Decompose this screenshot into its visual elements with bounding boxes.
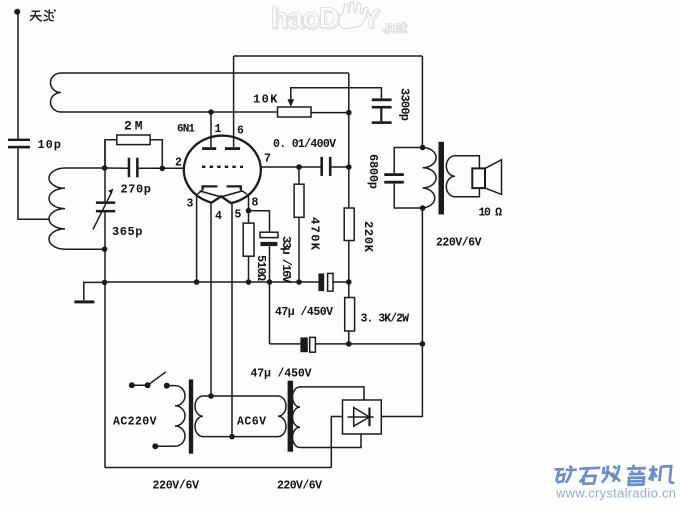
svg-text:3. 3K/2W: 3. 3K/2W [361, 313, 410, 326]
transformer T1 primary terminal bottom [152, 443, 175, 449]
wire 33u branch down [269, 282, 271, 344]
svg-text:AC6V: AC6V [237, 416, 266, 429]
wire L1 top line [61, 72, 349, 74]
wire pin4 down [210, 202, 212, 396]
svg-text:365p: 365p [112, 225, 143, 239]
wire speaker top [455, 156, 479, 169]
switch contacts [129, 372, 166, 389]
svg-text:220V/6V: 220V/6V [436, 237, 482, 250]
ground wire [84, 282, 105, 300]
potentiometer 10K body [278, 107, 312, 117]
transformer T1 primary winding [175, 386, 185, 447]
resistor 2M [117, 135, 150, 145]
wire rail348 mid [348, 241, 350, 298]
svg-text:10K: 10K [253, 93, 278, 107]
ground symbol [74, 300, 94, 303]
resistor 3.3K/2W [345, 298, 355, 332]
wire rail348 low [348, 331, 350, 344]
svg-text:haoD: haoD [271, 3, 339, 35]
resistor 510 ohm [243, 223, 254, 282]
junction dot pin2 [160, 166, 166, 172]
wire B+ rail top [421, 56, 423, 148]
bridge diode [348, 408, 374, 427]
junction dot 3.3K bottom [346, 341, 352, 347]
label antenna tianxian [30, 9, 56, 21]
svg-text:3: 3 [187, 198, 194, 211]
inductor L2 antenna coil [49, 168, 65, 249]
svg-text:10p: 10p [38, 138, 62, 152]
wire rail348 upper [348, 73, 350, 208]
svg-text:2M: 2M [124, 119, 143, 134]
watermark haoDIY.net logo [271, 2, 408, 37]
junction dot heater1 [208, 393, 214, 399]
svg-text:AC220V: AC220V [113, 416, 157, 429]
transformer T2 left winding [278, 396, 286, 437]
wire pin5 down [231, 203, 233, 437]
wire T2 to bridge bottom [300, 434, 361, 448]
svg-text:270p: 270p [121, 183, 152, 197]
svg-text:470K: 470K [308, 217, 322, 251]
svg-text:47μ /450V: 47μ /450V [251, 368, 312, 381]
svg-text:220K: 220K [361, 221, 375, 253]
svg-text:6N1: 6N1 [177, 123, 195, 135]
wire bottom line [105, 467, 331, 469]
tube cathode right [227, 186, 247, 194]
svg-text:www.crystalradio.cn: www.crystalradio.cn [555, 486, 676, 501]
wire L2 bottom to junction [65, 248, 105, 250]
wire left rail lower [104, 212, 106, 467]
wire pin6 top run [234, 55, 423, 57]
junction dot rail167 [346, 164, 352, 170]
transformer output core [439, 142, 445, 215]
junction dot heater2 [229, 434, 235, 440]
potentiometer wiper [287, 88, 381, 107]
junction dot ground [102, 280, 108, 286]
transformer output secondary winding [446, 156, 455, 197]
wire pin3 down [196, 195, 198, 282]
capacitor 47u/450V second [270, 337, 423, 352]
tube cathode left [197, 186, 217, 194]
wire pin8 down [248, 195, 250, 224]
bridge rectifier box [343, 400, 382, 434]
junction dot primary bottom [420, 205, 426, 211]
wire grid line left [105, 167, 129, 169]
wire antenna lead down [17, 12, 19, 139]
resistor 470K [294, 167, 304, 282]
wire bridge left to bottom line [331, 417, 342, 468]
capacitor 365p variable [93, 189, 115, 230]
wire B+ rail lower [381, 208, 422, 417]
svg-text:510Ω: 510Ω [254, 255, 268, 281]
capacitor 3300p [372, 98, 392, 124]
tube grid dashes [202, 166, 243, 168]
junction dot pot right [346, 110, 352, 116]
svg-text:0. 01/400V: 0. 01/400V [273, 138, 336, 151]
transformer output primary winding [423, 148, 437, 209]
svg-text:6800p: 6800p [366, 154, 380, 189]
speaker horn [485, 160, 502, 195]
antenna terminal [14, 9, 20, 15]
svg-text:2: 2 [175, 157, 182, 170]
svg-text:3300p: 3300p [398, 88, 412, 121]
wire left rail upper [104, 140, 106, 202]
capacitor 10p [8, 139, 30, 149]
capacitor 33u/16V [249, 211, 279, 282]
wire 2M left lead [105, 140, 117, 168]
capacitor 270p [128, 158, 139, 178]
junction dot B+ rail [420, 341, 426, 347]
resistor 220K [344, 208, 354, 241]
wire 2M right lead [150, 140, 162, 169]
labels group [38, 88, 503, 493]
wire 270p to pin 2 [139, 167, 184, 169]
junction dot pin1 top [208, 109, 214, 115]
capacitor 47u/450V first [318, 273, 333, 291]
svg-text:5: 5 [235, 209, 242, 222]
transformer T1 core [189, 379, 193, 453]
wire L1 bottom line to pot [61, 111, 278, 113]
wire T2 to bridge top [300, 387, 364, 400]
wire pin7 to coupling cap [261, 166, 322, 168]
tube filament [200, 191, 243, 197]
transformer T1 primary terminal top [164, 383, 175, 389]
wire 6V bus bottom [203, 436, 278, 438]
wire ground bus right of 47u [333, 281, 349, 283]
capacitor 6800p with bracket [384, 148, 422, 209]
wire speaker bottom [455, 188, 479, 197]
inductor L1 loop antenna top [51, 73, 61, 112]
svg-text:1: 1 [215, 123, 222, 136]
svg-text:4: 4 [215, 210, 222, 223]
junction dot primary top [420, 145, 426, 151]
wire 10p bottom lead to coil tap [18, 148, 49, 219]
capacitor 0.01/400V [320, 157, 331, 176]
svg-text:33μ /16V: 33μ /16V [279, 236, 293, 284]
junction dot coil bottom [102, 246, 108, 252]
tube plate right [225, 56, 240, 150]
svg-text:8: 8 [252, 197, 259, 210]
junction dot coil top [102, 165, 108, 171]
junction dots ground bus [194, 279, 352, 285]
svg-text:.net: .net [382, 19, 406, 36]
tube plate left [202, 112, 216, 150]
transformer T2 core [288, 381, 294, 452]
wire ground bus [105, 281, 319, 283]
svg-text:7: 7 [264, 153, 271, 166]
wire pot right lead [311, 112, 349, 114]
svg-text:47μ /450V: 47μ /450V [275, 306, 333, 319]
svg-text:10 Ω: 10 Ω [479, 207, 503, 220]
junction dot 470K top [296, 164, 302, 170]
wire 0.01 right lead [332, 166, 349, 168]
transformer T1 secondary winding [195, 396, 203, 437]
speaker driver [472, 168, 485, 188]
wire L2 top to junction [65, 167, 105, 169]
svg-text:6: 6 [237, 125, 244, 138]
junction dot pin8 [246, 208, 252, 214]
tube 6N1 envelope [184, 136, 261, 204]
wire 6V bus top [203, 395, 278, 397]
transformer T2 right winding [293, 387, 301, 448]
svg-text:220V/6V: 220V/6V [277, 480, 322, 493]
svg-text:220V/6V: 220V/6V [153, 480, 200, 493]
text kuangshi shouyinji blue [555, 465, 675, 485]
